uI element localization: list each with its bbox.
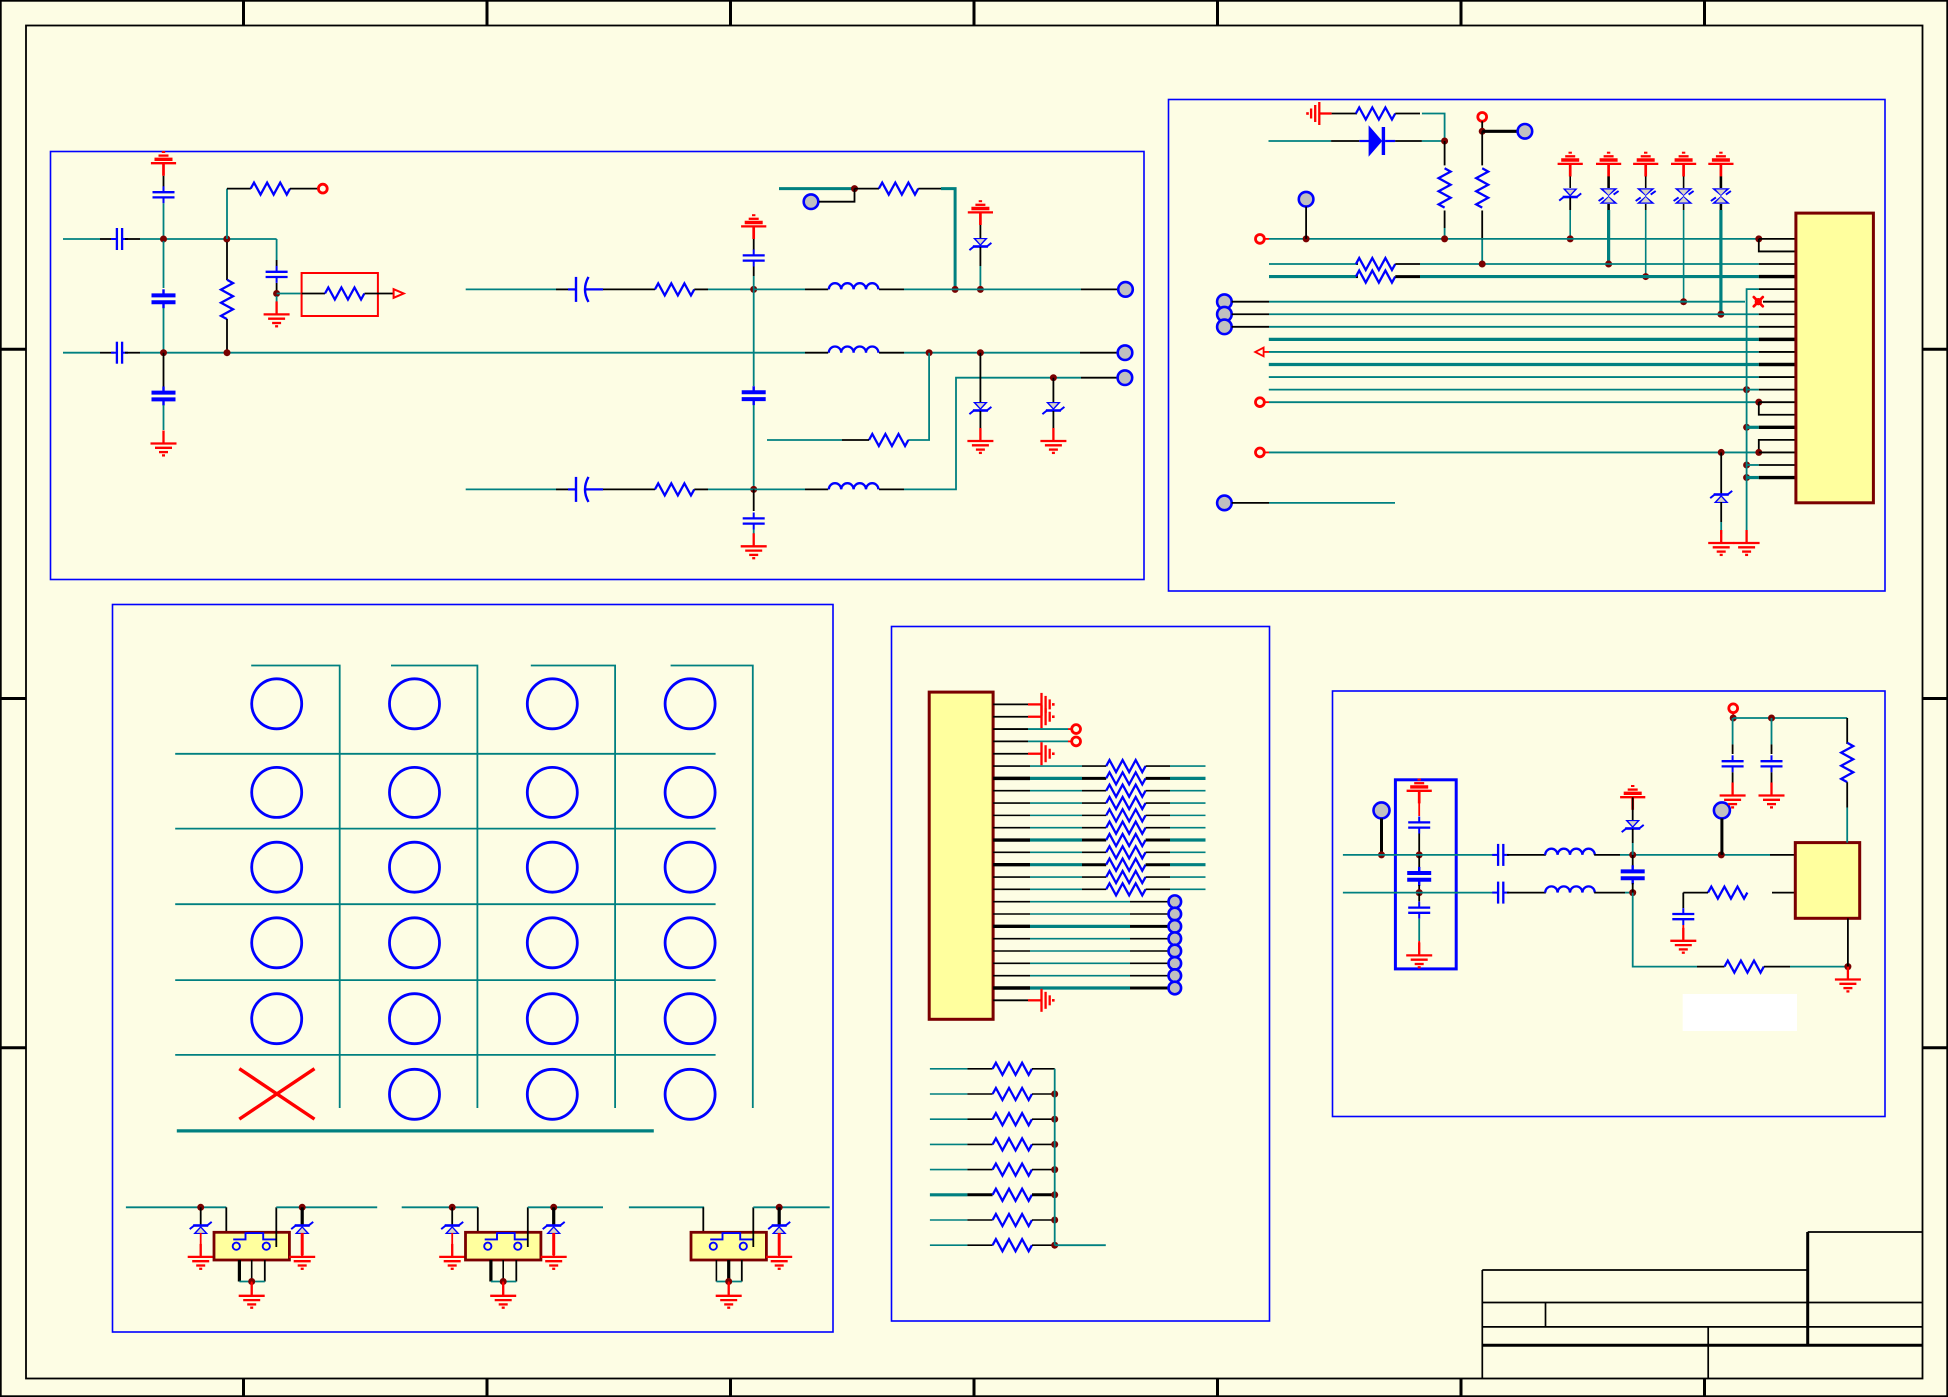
resistor ladder (967, 1068, 992, 1070)
capacitor C14 (1418, 893, 1420, 902)
wire (629, 1206, 704, 1208)
wire (1269, 263, 1356, 265)
wire (603, 488, 655, 490)
power ground PG4 (1558, 153, 1583, 177)
wire pin (1759, 451, 1796, 453)
wire pin (1759, 389, 1796, 391)
wire (163, 353, 165, 388)
node junction (1755, 235, 1762, 242)
wire pin (993, 728, 1028, 730)
capacitor C15 (1492, 844, 1509, 866)
node junction (223, 236, 230, 243)
node junction (1718, 449, 1725, 456)
keypad switch S12 (390, 679, 440, 729)
wire (1028, 728, 1068, 730)
node junction (1050, 374, 1057, 381)
wire (1632, 829, 1634, 843)
switch module SW1 (214, 1232, 289, 1260)
node junction (160, 349, 167, 356)
wire (1170, 851, 1206, 853)
inductor L2 (829, 347, 879, 353)
switch contacts (710, 1233, 753, 1250)
wire (1030, 888, 1082, 890)
wire (175, 903, 715, 905)
wire (1607, 176, 1610, 188)
wire (1481, 131, 1483, 165)
port P15 (1217, 496, 1232, 511)
keypad switch S24 (665, 767, 715, 817)
wire (1030, 777, 1082, 780)
node junction (160, 236, 167, 243)
resistor (1082, 839, 1106, 842)
diode D10 tvs (1720, 452, 1722, 494)
wire (753, 1206, 829, 1208)
resistor R12 (1356, 275, 1358, 278)
wire (1028, 740, 1068, 742)
wire (1848, 917, 1860, 919)
resistor (1082, 827, 1106, 829)
wire pin (1759, 401, 1796, 403)
wire (1030, 827, 1082, 829)
resistor R15 (1841, 743, 1853, 782)
wire (1482, 130, 1517, 133)
wire (1269, 238, 1759, 240)
inductor L1 (829, 283, 879, 289)
wire (1759, 402, 1796, 415)
wire switch pins (238, 1260, 241, 1282)
connector J2 (929, 692, 993, 1019)
wire (1420, 263, 1759, 265)
wire (1030, 851, 1082, 853)
node junction (1743, 474, 1750, 481)
capacitor C13 (1418, 855, 1420, 868)
wire (239, 1281, 264, 1283)
wire (556, 488, 568, 490)
wire (941, 189, 955, 290)
ground (541, 1244, 567, 1269)
wire (1645, 210, 1647, 277)
ground GND7 (1734, 530, 1760, 555)
wire (1790, 966, 1848, 968)
wire (1569, 210, 1571, 239)
wire pin (993, 876, 1030, 878)
wire (1395, 113, 1420, 115)
wire (1720, 818, 1723, 855)
wire (753, 289, 755, 386)
wire (1720, 176, 1723, 188)
keypad switch S13 (527, 679, 577, 729)
wire (1030, 765, 1082, 767)
inductor L4 (1545, 849, 1595, 855)
node junction (1629, 889, 1636, 896)
resistor (1082, 814, 1106, 816)
keypad switch S14 (665, 679, 715, 729)
port P3 (804, 194, 819, 209)
wire (1130, 975, 1168, 977)
node junction (926, 349, 933, 356)
wire (1054, 1069, 1056, 1245)
wire (140, 238, 277, 240)
node junction (1051, 1242, 1058, 1249)
wire pin (993, 740, 1028, 742)
wire (1269, 338, 1759, 341)
wire pin (993, 986, 1030, 989)
capacitor C2 (111, 228, 128, 250)
node junction (1743, 386, 1750, 393)
wire pin (993, 716, 1028, 718)
wire (163, 241, 165, 288)
node junction (1755, 399, 1762, 406)
port (1169, 920, 1182, 933)
wire (1771, 772, 1773, 783)
wire (907, 439, 909, 441)
wire pin (993, 925, 1030, 928)
wire (716, 1281, 741, 1283)
power ground PG2 (968, 201, 993, 225)
wire (752, 1207, 754, 1247)
ground (1028, 742, 1053, 765)
capacitor C20 (1771, 718, 1773, 744)
wire (1683, 176, 1685, 188)
wire (276, 296, 278, 303)
wire (918, 188, 941, 190)
wire pin (993, 999, 1028, 1001)
wire pin (993, 851, 1030, 853)
wire (1170, 802, 1206, 804)
port arrow IN1 (1255, 348, 1263, 357)
wire (753, 405, 755, 489)
wire pin (993, 790, 1030, 792)
wire (1747, 426, 1759, 429)
diode D3 tvs (1052, 378, 1054, 403)
node junction (197, 1204, 204, 1211)
wire pin (1759, 275, 1796, 278)
port P12 (1217, 320, 1232, 335)
keypad switch S52 (390, 994, 440, 1044)
wire (1232, 502, 1269, 504)
wire (1747, 464, 1759, 466)
wire (276, 239, 278, 260)
resistor R8 (1356, 108, 1395, 120)
wire (728, 1282, 730, 1295)
block border audio filter (51, 152, 1145, 580)
wire (855, 188, 880, 190)
keypad switch S44 (665, 918, 715, 968)
wire (1422, 114, 1445, 142)
keypad switch S53 (527, 994, 577, 1044)
wire (1269, 363, 1759, 366)
wire (930, 1068, 968, 1070)
diode D11 tvs (1622, 820, 1644, 832)
resistor R10 (1476, 168, 1488, 207)
wire (1030, 790, 1082, 792)
wire (125, 238, 140, 240)
wire (904, 378, 1081, 490)
keypad switch S33 (527, 842, 577, 892)
wire (1170, 790, 1206, 792)
resistor ladder (967, 1193, 992, 1196)
port P14 (1256, 448, 1265, 457)
diode D1 tvs (969, 238, 991, 250)
wire (163, 203, 165, 239)
wire (175, 753, 715, 755)
resistor R6 (655, 483, 694, 495)
diode D8 tvs (1674, 188, 1694, 204)
keypad switch S62 (390, 1069, 440, 1119)
keypad switch S64 (665, 1069, 715, 1119)
wire (1759, 239, 1796, 252)
wire (1269, 140, 1332, 142)
resistor ladder (967, 1143, 992, 1145)
title block (1482, 1232, 1922, 1379)
wire (805, 352, 828, 354)
inductor L5 (1545, 886, 1595, 892)
wire (1747, 289, 1759, 538)
wire (1481, 211, 1483, 241)
node junction (851, 185, 858, 192)
wire (1081, 288, 1118, 290)
ground GND6 (1308, 102, 1332, 125)
wire pin (993, 777, 1030, 780)
wire pin (1759, 363, 1796, 366)
wire (1846, 718, 1848, 744)
capacitor C16 (1492, 882, 1509, 904)
wire (175, 979, 715, 981)
wire (491, 1281, 516, 1283)
ground (1028, 705, 1053, 728)
wire (125, 352, 140, 354)
node junction (1768, 715, 1775, 722)
wire (1030, 938, 1130, 940)
wire pin (993, 863, 1030, 866)
wire (126, 1206, 226, 1208)
capacitor C12 (1408, 817, 1430, 834)
diode tvs left S2 (451, 1207, 453, 1225)
resistor (1082, 851, 1106, 853)
resistor (1082, 863, 1106, 866)
ground (1028, 693, 1053, 716)
wire (477, 1207, 479, 1247)
wire (1055, 1244, 1106, 1246)
wire (754, 488, 805, 490)
node junction (1416, 851, 1423, 858)
wire (930, 1118, 968, 1120)
wire (1170, 765, 1206, 767)
ground (239, 1283, 265, 1308)
node junction (550, 1204, 557, 1211)
port (1169, 932, 1182, 945)
wire (1068, 740, 1072, 742)
resistor R3 (221, 280, 233, 319)
wire (1332, 113, 1357, 115)
wire (1418, 791, 1420, 816)
port P4 (1118, 282, 1133, 297)
ground GND14 (1759, 783, 1785, 808)
wire (1481, 240, 1483, 264)
no-connect X (1754, 297, 1763, 306)
wire (163, 308, 165, 353)
wire (702, 1207, 704, 1247)
wire (163, 176, 165, 190)
wire (1130, 938, 1168, 940)
wire pin (1759, 351, 1796, 353)
wire (1130, 950, 1168, 952)
wire (1645, 176, 1647, 188)
wire (753, 489, 755, 511)
wire (1733, 717, 1847, 719)
wire (1846, 808, 1848, 843)
resistor R2 (325, 288, 364, 300)
ground (188, 1244, 214, 1269)
wire pin (1759, 426, 1796, 429)
resistor (1082, 876, 1106, 878)
wire (226, 319, 228, 353)
power ground PG10 (1407, 780, 1432, 804)
ground GND2 (151, 431, 177, 456)
wire (909, 353, 930, 440)
wire pin (993, 753, 1028, 755)
wire (930, 1143, 968, 1145)
wire (1481, 121, 1483, 131)
wire (1343, 892, 1495, 894)
diode tvs right S1 (301, 1207, 304, 1225)
port P18 (1729, 704, 1738, 713)
port (1169, 908, 1182, 921)
wire (930, 1244, 968, 1246)
power ground PG11 (1620, 786, 1645, 810)
node junction (1642, 273, 1649, 280)
wire (531, 666, 615, 1109)
wire (1030, 802, 1082, 804)
wire (1418, 834, 1420, 855)
wire (819, 189, 855, 202)
wire (1170, 876, 1206, 878)
wire (1633, 893, 1697, 967)
wire (879, 352, 904, 354)
wire (1747, 476, 1759, 479)
wire (527, 1207, 529, 1247)
wire (694, 488, 708, 490)
wire pin (1759, 313, 1796, 315)
wire (1269, 275, 1356, 278)
node junction (1378, 851, 1385, 858)
wire pin (1759, 288, 1796, 290)
wire (1770, 854, 1795, 856)
wire (1569, 176, 1571, 188)
wire (1682, 925, 1684, 939)
node junction (977, 286, 984, 293)
diode D9 tvs (1711, 188, 1731, 204)
wire (979, 266, 981, 289)
wire (1732, 713, 1734, 718)
node junction (248, 1278, 255, 1285)
port P16 (1374, 802, 1390, 818)
port (1072, 737, 1081, 746)
wire (1420, 275, 1759, 278)
ground GND5 (741, 533, 767, 558)
wire (451, 1233, 453, 1255)
node junction (1717, 311, 1724, 318)
power ground PG8 (1708, 153, 1733, 177)
ground (766, 1244, 792, 1269)
wire (767, 439, 842, 441)
node junction (1051, 1217, 1058, 1224)
port P2 (1118, 345, 1133, 360)
power ground PG3 (741, 215, 766, 239)
node junction (1051, 1091, 1058, 1098)
ground (1028, 989, 1053, 1012)
wire (671, 666, 753, 1109)
wire (1682, 893, 1684, 908)
ground (289, 1244, 315, 1269)
wire (805, 488, 828, 490)
wire (1331, 140, 1359, 142)
wire (1130, 901, 1168, 903)
wire (552, 1233, 555, 1255)
wire (1444, 211, 1446, 229)
connector J1 (1796, 213, 1874, 503)
wire (1847, 967, 1849, 977)
node junction (1730, 715, 1737, 722)
port P7 (1518, 124, 1533, 139)
resistor (1082, 765, 1106, 767)
node junction (273, 290, 280, 297)
wire (276, 1206, 377, 1208)
wire (1395, 140, 1422, 142)
wire (163, 405, 165, 430)
resistor ladder (967, 1169, 992, 1171)
ic U1 (1795, 843, 1859, 919)
resistor R9 (1439, 168, 1451, 207)
resistor ladder (967, 1219, 992, 1221)
node junction (1479, 261, 1486, 268)
resistor ladder (967, 1244, 992, 1246)
wire (140, 352, 805, 354)
resistor (1082, 802, 1106, 804)
wire (1170, 827, 1206, 829)
wire (402, 1206, 478, 1208)
ground GND4 (1040, 428, 1066, 453)
wire (1720, 502, 1722, 522)
wire (1068, 728, 1072, 730)
wire (1269, 351, 1759, 353)
wire pin (993, 888, 1030, 890)
wire pin (1759, 263, 1796, 265)
wire (1620, 854, 1770, 856)
port P8 (1256, 235, 1265, 244)
wire (466, 488, 556, 490)
power ground PG5 (1596, 153, 1621, 177)
resistor R4 (879, 183, 918, 195)
wire (1444, 228, 1446, 239)
ground (716, 1283, 742, 1308)
capacitor C9 (742, 386, 766, 405)
capacitor C19 (1732, 718, 1734, 744)
wire (63, 352, 100, 354)
wire (1232, 313, 1269, 315)
port P1 (318, 184, 327, 193)
wire (930, 1193, 968, 1196)
wire (1030, 962, 1130, 964)
wire (979, 247, 981, 266)
wire pin (993, 901, 1030, 903)
wire switch pins (715, 1260, 717, 1282)
wire (1030, 925, 1130, 928)
wire (1170, 777, 1206, 780)
wire pin (993, 814, 1030, 816)
wire pin (993, 838, 1030, 841)
wire (1594, 854, 1620, 856)
